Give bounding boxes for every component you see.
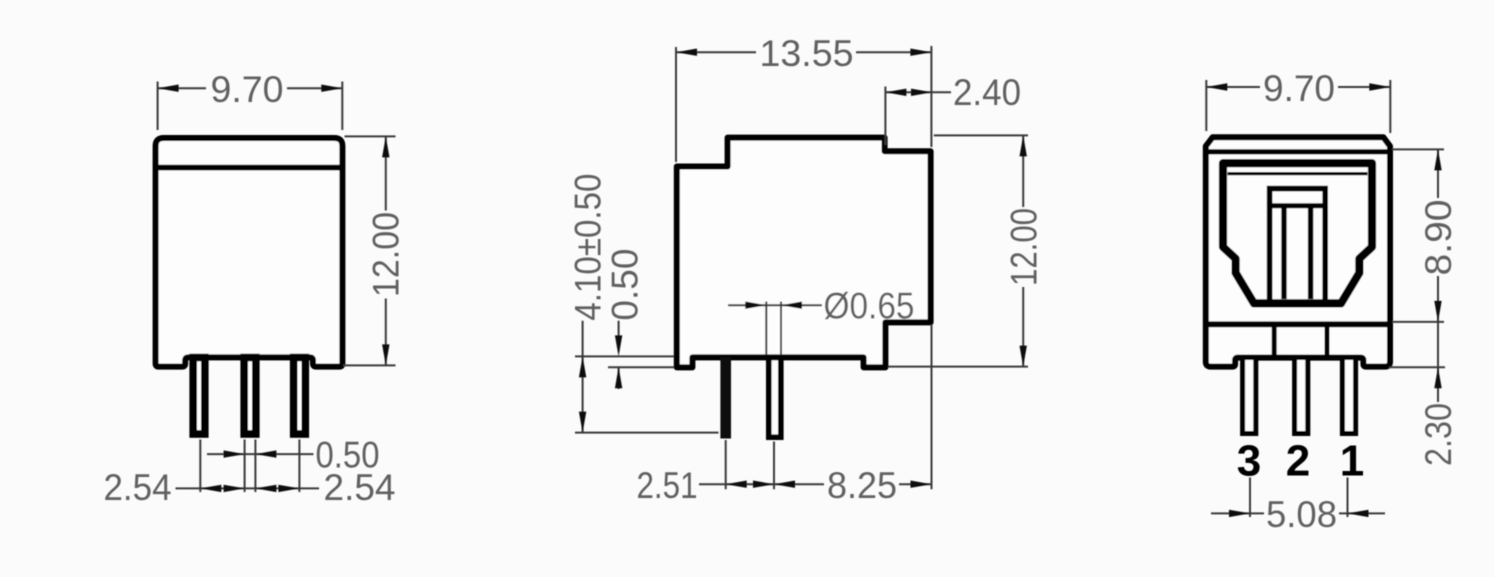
- right view lower band dividers: [1274, 327, 1327, 356]
- dim 2.51 / 8.25 line: [699, 483, 932, 485]
- dim 0.50 arrows: [615, 335, 622, 356]
- dim 2.30 arrow: [1434, 367, 1441, 388]
- svg-text:2: 2: [1286, 437, 1310, 486]
- right view socket inner top line: [1228, 172, 1368, 175]
- right view slot bars: [1284, 206, 1311, 299]
- svg-text:Ø0.65: Ø0.65: [824, 286, 915, 327]
- dim 8.25 arrows: [774, 481, 795, 488]
- dim 13.55 arrows: [676, 49, 697, 56]
- svg-text:2.51: 2.51: [637, 465, 698, 506]
- dim 2.54 line: [176, 487, 320, 489]
- right view face bottom line: [1206, 321, 1390, 327]
- svg-text:1: 1: [1340, 437, 1364, 486]
- dim 9.70 extension lines: [158, 82, 343, 131]
- bottom extension lines: [200, 440, 299, 493]
- dim 2.54 arrows: [200, 485, 221, 492]
- middle view pin A (solid): [720, 357, 731, 439]
- right view center block divider: [1270, 203, 1326, 208]
- dim 9.70 arrows: [158, 85, 179, 92]
- left view body outline: [156, 138, 343, 367]
- svg-text:8.25: 8.25: [827, 465, 897, 506]
- dim 2.40 extension line: [884, 87, 886, 146]
- middle view body outline: [677, 138, 931, 368]
- dim 12.00 extension lines: [343, 136, 396, 365]
- svg-text:12.00: 12.00: [1004, 208, 1045, 286]
- dim 2.40 line: [885, 91, 951, 93]
- dim 0.50 arrows: [224, 450, 245, 457]
- dim 9.70 line: [158, 87, 343, 89]
- dim 4.10 line: [582, 321, 584, 433]
- dim 9.70 line: [1206, 86, 1390, 88]
- left extension lines: [575, 356, 719, 432]
- dim 8.90 line: [1437, 149, 1439, 402]
- svg-text:2.40: 2.40: [953, 72, 1021, 113]
- dim 5.08 line: [1211, 512, 1385, 514]
- dim 12.00 line: [1022, 135, 1024, 366]
- dim 13.55 line: [676, 51, 931, 53]
- dim 5.08 arrows: [1229, 510, 1250, 517]
- svg-text:13.55: 13.55: [760, 33, 854, 74]
- right view pin 3: [1243, 358, 1256, 434]
- dim 12.00 arrows: [382, 136, 389, 157]
- dim 0.50 line: [618, 321, 620, 389]
- right view pin 1: [1342, 358, 1355, 434]
- left view pin 2: [244, 358, 256, 435]
- dim 9.70 extension lines: [1206, 80, 1390, 133]
- middle view pin B: [769, 358, 781, 438]
- dim 0.50 line: [207, 453, 314, 455]
- right view pin 2: [1295, 358, 1308, 434]
- dim 12.00 arrows: [1020, 135, 1027, 156]
- left view pin 1: [193, 358, 205, 435]
- left view pin 3: [294, 358, 306, 435]
- dim 2.40 arrows: [885, 89, 906, 96]
- dim 13.55 extension lines: [676, 46, 931, 162]
- right view body outline: [1206, 137, 1390, 366]
- dim O0.65 line: [728, 304, 822, 306]
- svg-text:4.10±0.50: 4.10±0.50: [568, 174, 609, 321]
- svg-text:2.54: 2.54: [104, 467, 172, 508]
- svg-text:5.08: 5.08: [1266, 494, 1337, 535]
- dim O0.65 arrows: [745, 302, 766, 309]
- svg-text:9.70: 9.70: [211, 69, 284, 110]
- left view cap line: [157, 165, 342, 171]
- svg-text:2.30: 2.30: [1418, 403, 1459, 466]
- right view socket outline: [1223, 163, 1372, 303]
- svg-text:0.50: 0.50: [604, 249, 645, 321]
- dim 4.10 arrows: [579, 356, 586, 377]
- dim 12.00 extension lines: [888, 135, 1028, 366]
- dim 2.51 arrows: [726, 481, 747, 488]
- svg-text:12.00: 12.00: [366, 212, 407, 297]
- svg-text:2.54: 2.54: [324, 467, 396, 508]
- dim 8.90 extension lines: [1389, 149, 1445, 367]
- right view top band line: [1206, 149, 1390, 154]
- dim 9.70 arrows: [1206, 83, 1227, 90]
- svg-text:9.70: 9.70: [1263, 68, 1335, 109]
- svg-text:8.90: 8.90: [1418, 200, 1459, 276]
- dim 8.90 arrows: [1434, 149, 1441, 170]
- bottom extension lines: [726, 325, 932, 490]
- dim O0.65 extension lines: [766, 302, 781, 356]
- dim 12.00 line: [385, 136, 387, 365]
- right view center block: [1270, 189, 1326, 300]
- dim 5.08 extension lines: [1250, 478, 1348, 518]
